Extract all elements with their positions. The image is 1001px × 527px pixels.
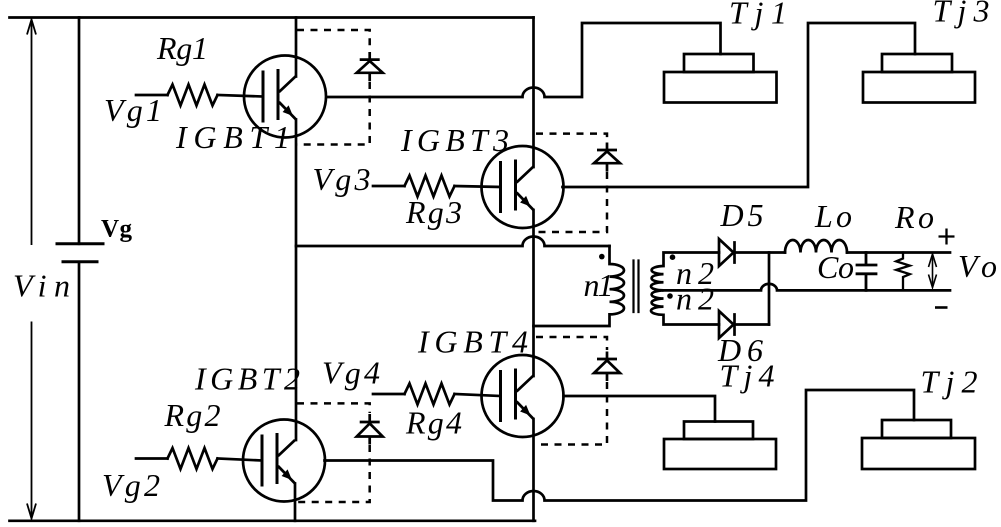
Tj2 package [862,420,975,469]
svg-text:IGBT2: IGBT2 [194,361,300,397]
svg-text:Rg2: Rg2 [164,397,221,433]
wire IGBT1 collector [295,18,298,77]
Vo measurement arrow [929,254,937,288]
svg-text:Rg1: Rg1 [156,30,208,66]
Tj4 package [664,422,776,470]
wire Vin battery branch lower [78,262,81,521]
Tj1 package [664,54,777,103]
svg-text:Lo: Lo [814,198,852,234]
wire Rg2 to IGBT2 gate [218,459,263,461]
svg-text:Vg2: Vg2 [102,467,160,503]
svg-text:n2: n2 [676,281,714,317]
svg-text:Rg3: Rg3 [405,194,462,230]
battery Vg plate long [57,242,103,245]
Tj3 package [863,54,975,103]
wire IGBT2 emitter [294,484,297,521]
wire Vg1 lead [136,94,168,97]
svg-text:D5: D5 [720,197,764,233]
dashed snubber box IGBT3 [536,134,607,232]
wire Vg3 lead [373,185,405,188]
wire Rg4 to IGBT4 gate [455,394,501,396]
svg-text:IGBT3: IGBT3 [400,122,509,158]
resistor Ro [896,253,910,291]
antiparallel diode IGBT2 [357,414,383,445]
IGBT1 [244,56,326,138]
label plus [939,229,955,245]
svg-text:Vg: Vg [101,216,133,243]
wire cathode join vertical [768,253,771,325]
label minus [935,306,948,309]
transformer primary winding n1 [534,246,625,326]
wire IGBT4 emitter [532,419,535,521]
antiparallel diode IGBT1 [357,52,383,81]
svg-text:Vg1: Vg1 [104,92,162,128]
svg-text:Tj2: Tj2 [921,364,978,400]
wire IGBT2 to Tj2 (hump over IGBT4 emitter) [325,390,915,501]
IGBT4 [482,355,564,437]
svg-text:Rg4: Rg4 [405,405,462,441]
wire IGBT1 to Tj1 (hump over leg2) [327,23,721,97]
svg-text:Vin: Vin [13,268,70,304]
IGBT2 [243,420,325,502]
inductor Lo [785,240,847,253]
antiparallel diode IGBT4 [594,352,620,382]
svg-text:n1: n1 [584,267,614,303]
wire top rail drop to IGBT3 collector [532,18,535,168]
wire D6 cathode to join [735,323,770,326]
wire Rg1 to IGBT1 gate [218,95,264,97]
svg-text:Ro: Ro [894,199,934,235]
transformer secondary lower polarity dot [667,293,673,299]
wire IGBT3 emitter to node B to IGBT4 collector [532,210,535,376]
wire bottom rail [10,519,536,522]
wire Vin battery branch upper [78,18,81,244]
transformer primary polarity dot [599,254,605,260]
wire node A to transformer primary (hump over leg2) [296,237,610,247]
wire top rail [10,16,534,19]
wire IGBT1 emitter to node A to IGBT2 collector [295,120,298,441]
wire IGBT3 to Tj3 [563,23,916,187]
wire Lo to output + [847,251,950,254]
transformer secondary winding n2 upper and lower [651,253,719,325]
svg-text:Vg4: Vg4 [322,355,380,391]
diode D6 [719,311,735,338]
wire D5 cathode to Lo [735,251,786,254]
diode D5 [719,239,735,266]
svg-text:Tj3: Tj3 [933,0,990,29]
resistor Rg3 [405,176,455,197]
dashed snubber box IGBT1 [297,30,370,145]
resistor Rg1 [168,85,218,106]
wire Vg4 lead [373,393,405,396]
transformer core [634,261,639,313]
wire Rg3 to IGBT3 gate [455,186,501,187]
svg-text:Tj1: Tj1 [729,0,787,31]
wire Vg2 lead [136,457,168,460]
dashed snubber box IGBT4 [536,337,607,445]
svg-text:IGBT4: IGBT4 [417,324,528,360]
capacitor Co [857,253,876,291]
antiparallel diode IGBT3 [594,143,620,172]
wire center tap to output return (hump over cathode join) [664,284,951,290]
svg-text:Co: Co [817,249,854,285]
battery Vg plate short [63,260,97,263]
svg-text:Vo: Vo [958,248,997,284]
resistor Rg2 [168,448,218,469]
transformer secondary upper polarity dot [670,254,676,260]
Vin measurement arrow [27,20,36,519]
svg-text:Tj4: Tj4 [720,358,775,394]
dashed snubber box IGBT2 [297,403,370,502]
IGBT3 [482,146,564,228]
resistor Rg4 [405,384,455,405]
wire IGBT4 to Tj4 [564,396,716,422]
svg-text:Vg3: Vg3 [313,161,371,197]
